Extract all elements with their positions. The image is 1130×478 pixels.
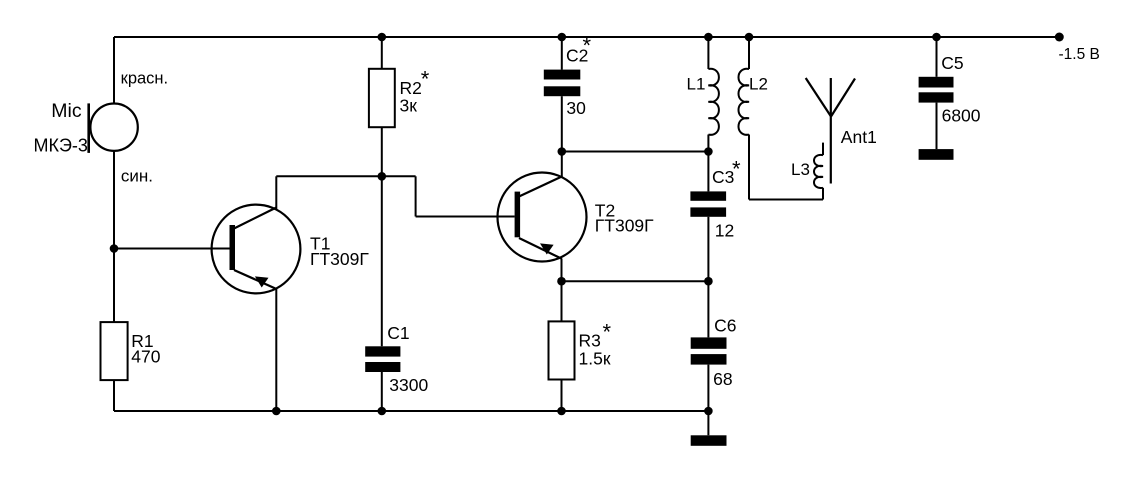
- svg-text:12: 12: [715, 221, 734, 241]
- wire T1 emitter vertical to ground rail: [275, 289, 277, 411]
- svg-text:R3: R3: [579, 331, 601, 351]
- svg-text:МКЭ-3: МКЭ-3: [34, 135, 88, 155]
- wire left column mic top lead: [113, 37, 115, 104]
- svg-text:*: *: [603, 320, 612, 345]
- junction dot C2 top rail: [558, 33, 567, 42]
- wire R3 bottom lead: [561, 380, 563, 412]
- wire L3 bottom lead: [822, 188, 824, 200]
- wire C5 top lead: [936, 37, 938, 77]
- svg-text:3300: 3300: [389, 375, 428, 395]
- svg-text:Mic: Mic: [51, 100, 82, 122]
- wire node A horizontal (T1 collector to R2/C1 and step): [276, 175, 415, 177]
- wire bottom ground rail: [114, 410, 708, 412]
- junction dot C6 ground rail: [704, 407, 713, 416]
- svg-text:син.: син.: [121, 166, 153, 185]
- junction dot C5 top rail: [932, 33, 941, 42]
- wire C5 bottom to ground symbol: [936, 103, 938, 150]
- junction dot T2 collector / C2: [558, 147, 567, 156]
- capacitor C2: [544, 70, 581, 97]
- junction dot C1 ground rail: [378, 407, 387, 416]
- junction dot L1 top rail: [704, 33, 713, 42]
- wire T2 base: [416, 216, 515, 218]
- svg-text:ГТ309Г: ГТ309Г: [310, 249, 369, 269]
- junction dot T1 base / R1: [110, 244, 119, 253]
- transistor T1: [212, 205, 301, 294]
- wire L2 top lead: [748, 37, 750, 69]
- svg-text:3к: 3к: [400, 96, 418, 116]
- junction dot L2 top rail: [745, 33, 754, 42]
- ground bar below C6: [691, 435, 727, 446]
- wire T2 collector vertical: [561, 152, 563, 178]
- wire L2 to L3 bottom link: [749, 199, 823, 201]
- wire C1 bottom lead: [381, 372, 383, 411]
- resistor R1: [101, 322, 128, 380]
- inductor L3: [814, 155, 823, 188]
- svg-text:L2: L2: [749, 75, 768, 94]
- junction dot T1 emitter ground rail: [272, 407, 281, 416]
- resistor R3: [549, 321, 575, 379]
- svg-text:*: *: [583, 33, 592, 58]
- wire left column mic bottom lead down to R1: [113, 151, 115, 323]
- wire T1 base: [114, 248, 230, 250]
- svg-text:-1.5 В: -1.5 В: [1059, 46, 1100, 63]
- wire L3 top lead: [822, 143, 824, 156]
- svg-text:C1: C1: [387, 323, 409, 343]
- svg-text:30: 30: [566, 98, 586, 118]
- svg-text:L1: L1: [687, 75, 706, 94]
- svg-text:C6: C6: [714, 316, 736, 336]
- junction dot R3 ground rail: [557, 407, 566, 416]
- wire C3 bottom to C6 top: [707, 217, 709, 338]
- wire L1 top lead: [707, 37, 709, 69]
- wire T2 emitter to C6: [562, 280, 709, 282]
- wire T1 collector vertical: [275, 176, 277, 209]
- wire C2 bottom lead: [561, 96, 563, 151]
- capacitor C3: [690, 191, 726, 216]
- wire top supply rail: [114, 36, 1059, 38]
- ground bar below C5: [919, 149, 954, 160]
- capacitor C6: [691, 337, 727, 364]
- svg-text:красн.: красн.: [121, 69, 169, 87]
- wire left column R1 bottom to ground rail: [113, 380, 115, 411]
- svg-text:*: *: [421, 67, 430, 92]
- inductor L2: [739, 69, 750, 135]
- svg-text:1.5к: 1.5к: [579, 349, 611, 369]
- transistor T2: [498, 173, 587, 262]
- wire R2 bottom to C1 top: [381, 127, 383, 346]
- terminal dot -1.5V supply: [1055, 33, 1064, 42]
- svg-text:68: 68: [713, 369, 732, 389]
- wire C6 bottom to ground symbol: [707, 365, 709, 436]
- wire C2 top lead: [561, 37, 563, 70]
- wire step down to T2 base level: [415, 176, 417, 216]
- junction dot node A (R2 bottom): [378, 172, 387, 181]
- wire T2 collector to tank circuit: [562, 151, 709, 153]
- inductor L1: [708, 69, 719, 135]
- svg-text:Ant1: Ant1: [841, 127, 877, 147]
- svg-text:L3: L3: [791, 160, 810, 179]
- junction dot R2 top rail: [378, 33, 387, 42]
- wire L1 bottom to C3 top: [707, 135, 709, 192]
- svg-text:ГТ309Г: ГТ309Г: [595, 215, 654, 235]
- junction dot T2 emitter / R3: [557, 277, 566, 286]
- junction dot L1 bottom / C3: [704, 147, 713, 156]
- svg-text:470: 470: [131, 347, 160, 367]
- svg-text:C5: C5: [941, 53, 963, 73]
- antenna Ant1: [806, 78, 855, 184]
- wire R2 top lead: [381, 37, 383, 69]
- wire T2 emitter vertical to R3: [561, 259, 563, 322]
- wire L2 bottom lead: [748, 135, 750, 200]
- microphone Mic MKE-3: [89, 103, 138, 152]
- svg-text:*: *: [732, 157, 741, 182]
- capacitor C1: [365, 346, 400, 372]
- resistor R2: [369, 69, 395, 127]
- svg-text:6800: 6800: [942, 106, 981, 126]
- junction dot C3 bottom / C6: [704, 277, 713, 286]
- capacitor C5: [919, 77, 954, 103]
